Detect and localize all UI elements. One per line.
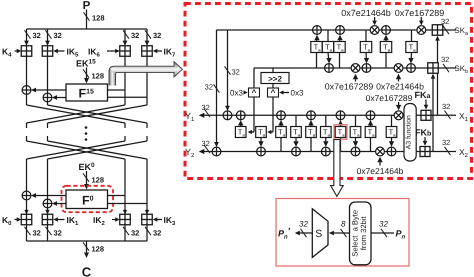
slash 32 on V1 (214, 84, 220, 92)
ellipsis dot 1 for middle rounds (85, 126, 88, 129)
xor row B no1 (325, 64, 334, 73)
svg-text:0x3: 0x3 (230, 89, 243, 98)
0x3 multiplier box 2 with caret (268, 88, 279, 97)
wire bus down to C with slash 128 (86, 241, 88, 256)
wire stub word1 above last swap (47, 136, 49, 141)
red highlight around fault target T box (334, 125, 347, 140)
bottom T box 4 (291, 127, 302, 138)
slash 32 and label SKa (443, 26, 449, 34)
wire Y1 tap down into bottom T box (down-type) no3 (355, 115, 357, 126)
wire word3 down through round 0 (146, 159, 148, 214)
wire T1 up to row A xor (316, 37, 319, 42)
wire F0 output to xor word0 (33, 195, 67, 197)
wire stub word3 above last swap (146, 136, 148, 141)
svg-text:from 32bit: from 32bit (359, 216, 368, 251)
svg-text:32: 32 (205, 83, 213, 92)
bottom T box 6 (321, 127, 332, 138)
pink border of fault injection panel (276, 199, 409, 267)
wire Y2 tap up into bottom T box (up-type) no2 (310, 138, 312, 152)
slash 32 on Y1 (204, 109, 210, 117)
wire word1 down to round xor (47, 56, 49, 93)
multiplier on row A (0x7e21464b) (370, 26, 379, 35)
slash 32 and label X2 (445, 147, 451, 155)
svg-text:Pn′: Pn′ (278, 226, 291, 241)
output xor-box IK3 (142, 214, 153, 225)
down arrow from bottom T box into Y2 xor no3 (325, 138, 327, 146)
xor row B no2 (362, 64, 371, 73)
swap wire word0 to word2 after round 15 (27, 105, 126, 123)
wire word1 to round0 xor (47, 159, 49, 199)
svg-text:32: 32 (54, 31, 62, 40)
wire word3 to bottom bus with slash 32 (146, 225, 148, 241)
wire shift box into 0x3 multiplier box 2 (272, 84, 274, 89)
wire branch word1 (47, 29, 49, 45)
round function box F0 (66, 190, 108, 209)
label IK7 with input arrow (153, 49, 158, 53)
xor on Y2 from V1 (212, 147, 221, 156)
label IK3 with input arrow (153, 217, 158, 221)
wire word2 down through round 15 (124, 56, 126, 105)
left drop V1: row A corner down to Y2 xor (216, 30, 218, 146)
top bus wire (27, 28, 148, 30)
xor round15 word1 (43, 93, 52, 102)
svg-text:32: 32 (33, 229, 41, 238)
Y1 output arrow and label (199, 113, 205, 118)
multiplier on row B (0x7e167289) (351, 64, 360, 73)
wire P down to top bus (86, 10, 88, 30)
A3 function rounded box (404, 104, 416, 162)
table box T1 top row (311, 42, 322, 53)
svg-text:IK3: IK3 (164, 215, 177, 227)
bottom T box 10 (386, 127, 397, 138)
wire word1 into swap (47, 102, 49, 105)
bus width slash 128 on P wire (84, 12, 90, 20)
svg-text:32: 32 (131, 31, 139, 40)
svg-text:IK6: IK6 (88, 47, 101, 59)
svg-text:32: 32 (33, 31, 41, 40)
svg-text:EK15: EK15 (76, 58, 96, 68)
wire T3 up to row A xor (339, 37, 342, 42)
svg-text:32: 32 (299, 220, 308, 229)
wire S-box to Pn-prime with arrow and slash 32 (297, 232, 313, 234)
ellipsis dot 2 for middle rounds (85, 132, 88, 135)
Y1 / X1 horizontal wire (201, 114, 457, 116)
xor row A no2 (336, 26, 345, 35)
wire branch word3 (146, 29, 148, 45)
svg-text:0x7e167289: 0x7e167289 (366, 93, 413, 103)
xor row A no1 (313, 26, 322, 35)
arrowhead into word3 output xor-box (145, 210, 149, 215)
xor on Y2 below bottom T4 (387, 147, 396, 156)
svg-text:32: 32 (379, 220, 388, 229)
svg-text:^: ^ (271, 88, 276, 97)
svg-text:>>2: >>2 (268, 74, 282, 83)
wire F15 output to xor word1 (54, 97, 67, 99)
wire branch word0 (26, 29, 28, 45)
multiplier on row B (0x7e21464b) (394, 64, 403, 73)
wire T6 down to row B xor (410, 53, 413, 62)
xor on Y1 above bottom T0 (236, 111, 245, 120)
bottom T box 2 (256, 127, 267, 138)
slash 32 and label X1 (445, 111, 451, 119)
svg-text:32: 32 (442, 138, 450, 147)
left drop V2: row A tap down to Y1 xor (227, 30, 229, 110)
xor-box FKb on X2 row (420, 147, 430, 157)
up arrow from bottom T box into Y1 xor no4 (340, 121, 342, 126)
wire EK15 into F15 with slash 128 (86, 68, 88, 82)
row A wire (217, 29, 457, 31)
xor on Y2 below bottom T2 (321, 147, 330, 156)
red dashed highlight around F0 (62, 186, 114, 212)
xor row B no3 (407, 64, 416, 73)
up arrow from bottom T box into Y1 xor no2 (280, 121, 282, 126)
slash 32 on Y2 (204, 145, 210, 153)
wire select box to S-box with arrow and slash 8 (331, 232, 350, 234)
shift box >>2 (261, 73, 289, 84)
slash 32 word0 (25, 30, 31, 38)
xor on Y1 above bottom T3 (336, 111, 345, 120)
wire row B tap up into T3 (339, 53, 341, 69)
slash 32 on V2 (225, 66, 231, 74)
bottom T box 5 (306, 127, 317, 138)
xor round0 word0 (22, 191, 31, 200)
svg-text:0x7e21464b: 0x7e21464b (341, 8, 391, 18)
bottom T box 3 (276, 127, 287, 138)
svg-text:Y1: Y1 (185, 111, 195, 123)
wire row B tap up into T5 (385, 53, 387, 69)
wire row B tap up into T1 (316, 53, 318, 69)
table box T4 top row (360, 42, 371, 53)
bottom T box 8 (350, 127, 361, 138)
bottom T box 1 (235, 127, 246, 138)
wire Y2 tap up into bottom T box (up-type) no3 (340, 138, 342, 152)
wire word2 input into F15 (108, 89, 126, 91)
svg-text:32: 32 (232, 68, 240, 77)
table box T3 top row (334, 42, 345, 53)
svg-text:A3 function: A3 function (406, 115, 413, 149)
svg-text:32: 32 (202, 103, 210, 112)
wire branch word2 (124, 29, 126, 45)
wire Y2 tap up into bottom T box (up-type) no4 (370, 138, 372, 152)
slash 32 word3 (145, 30, 151, 38)
wire SKa tap from X1 line (437, 37, 439, 115)
xor round0 word1 (43, 199, 52, 208)
wire Y1 tap down into bottom T box (down-type) no1 (295, 115, 297, 126)
wire F0 output to xor word1 (54, 203, 67, 205)
svg-text:0x7e167289: 0x7e167289 (325, 82, 374, 92)
wire word1 to bottom bus with slash 32 (47, 225, 49, 241)
svg-text:128: 128 (92, 245, 105, 254)
slash 32 word2 (123, 30, 129, 38)
wire 0x3 box2 down and left into bottom T2 (272, 97, 274, 132)
svg-text:SKa: SKa (455, 26, 469, 37)
wire Y2 tap up into bottom T box (up-type) no1 (280, 138, 282, 152)
select a byte rounded box (350, 202, 372, 265)
xor-box SKa on row A (432, 25, 443, 36)
wire row A tap into T4 (365, 30, 367, 42)
wire row B tap into shift box (272, 68, 274, 73)
output xor-box IK1 (42, 214, 53, 225)
up arrow from bottom T box into Y1 xor no1 (240, 121, 242, 126)
whitening xor-box IK7 (142, 46, 153, 57)
wire Pn into select box with slash 32 (371, 232, 394, 234)
label IK5 with input arrow (53, 49, 58, 53)
row B wire (254, 67, 456, 69)
wire word3 input into F0 (108, 203, 148, 205)
svg-text:S: S (315, 228, 322, 240)
wire Y1 tap down into bottom T box (down-type) no2 (325, 115, 327, 126)
wire word0 to bottom bus with slash 32 (26, 225, 28, 241)
wire word0 down to round xor (26, 56, 28, 86)
down arrow from bottom T box into Y2 xor no4 (355, 138, 357, 146)
wire T2 down to row B xor (328, 53, 329, 62)
slash 32 word1 (46, 30, 52, 38)
xor row A no4 (382, 26, 391, 35)
table box T5 top row (380, 42, 391, 53)
wire stub word2 above last swap (124, 136, 126, 141)
wire F15 output to xor word0 (33, 89, 67, 91)
multiplier on row A (0x7e167289) (417, 26, 426, 35)
svg-text:Y2: Y2 (185, 147, 195, 159)
svg-text:128: 128 (92, 72, 105, 81)
wire EK0 into F0 with slash 128 (86, 171, 88, 188)
svg-text:X1: X1 (459, 111, 469, 123)
multiplier on X2 row (0x7e21464b) (376, 147, 385, 156)
down arrow from bottom T box into Y2 xor no2 (295, 138, 297, 146)
up arrow from bottom T box into Y1 xor no5 (370, 121, 372, 126)
label IK1 with input arrow (53, 217, 58, 221)
svg-text:K4: K4 (2, 47, 12, 59)
swap wire word1 to word3 after round 15 (48, 105, 148, 123)
wire word2 to bottom bus with slash 32 (124, 225, 126, 241)
xor on Y1 above bottom T4 (366, 111, 375, 120)
slash 32 and label SKb (443, 64, 449, 72)
wire word3 down through round 15 (146, 56, 148, 105)
svg-text:C: C (82, 265, 92, 277)
swap wire word3 to word1 after round 15 (48, 105, 148, 123)
label 0x3 with arrow into box 2 (287, 92, 289, 94)
xor-box SKb on row B (428, 63, 439, 74)
xor on Y1 above bottom T2 (307, 111, 316, 120)
xor round15 word0 (22, 86, 31, 95)
svg-text:IK2: IK2 (93, 215, 106, 227)
wire word3 input into F15 (108, 96, 148, 98)
wire word0 into output xor-box (26, 200, 28, 214)
svg-text:128: 128 (92, 176, 105, 185)
wire word2 input into F0 (108, 195, 126, 197)
swap wire word2 to word0 after round 15 (27, 105, 126, 123)
wire SKb tap from X2 line (432, 75, 434, 152)
svg-text:EK0: EK0 (79, 162, 96, 172)
xor-box FKa on X1 row (421, 110, 431, 120)
Y2 output arrow and label (199, 149, 205, 154)
wire T4 down to row B xor (365, 53, 368, 62)
svg-text:0x3: 0x3 (291, 89, 304, 98)
whitening xor-box K4 (21, 46, 32, 57)
svg-text:32: 32 (131, 229, 139, 238)
svg-text:IK1: IK1 (67, 215, 80, 227)
xor on Y1 above bottom T1 (277, 111, 286, 120)
wire Y1 tap down into bottom T box (down-type) no4 (391, 115, 393, 126)
svg-text:IK5: IK5 (67, 47, 80, 59)
svg-text:0x7e21464b: 0x7e21464b (357, 166, 404, 176)
svg-text:32: 32 (153, 229, 161, 238)
svg-text:X2: X2 (459, 147, 469, 159)
xor on Y2 below bottom T1 (292, 147, 301, 156)
svg-text:32: 32 (153, 31, 161, 40)
wire stub word2 below swap (124, 123, 126, 128)
swap wire word3 to word1 before round 0 (48, 141, 148, 159)
swap wire word1 to word3 before round 0 (48, 141, 148, 159)
wire stub word0 below swap (26, 123, 28, 128)
bottom bus wire (27, 240, 148, 242)
svg-text:FKa: FKa (415, 90, 431, 100)
wire 0x3 box1 down and left into bottom T1 (253, 97, 255, 132)
ellipsis dot 3 for middle rounds (85, 138, 88, 141)
swap wire word2 to word0 before round 0 (27, 141, 126, 159)
row B left corner down into 0x3 multiplier box (253, 68, 255, 88)
svg-text:FKb: FKb (415, 127, 431, 137)
xor on Y2 below bottom T0 (257, 147, 266, 156)
svg-text:^: ^ (252, 88, 257, 97)
wire stub word1 below swap (47, 123, 49, 128)
0x3 multiplier box 1 with caret (249, 88, 260, 97)
wire word1 into output xor-box (47, 208, 49, 214)
bottom T box 7 (fault target) (335, 127, 346, 138)
down arrow from bottom T box into Y2 xor no1 (260, 138, 262, 146)
table box T6 top row (406, 42, 417, 53)
red dashed border of F function panel (185, 4, 472, 179)
xor on Y2 below bottom T3 (351, 147, 360, 156)
hollow fault arrow from T box down to select panel (331, 140, 344, 197)
multiplier on X1 row (0x7e167289) (394, 111, 403, 120)
arrowhead into word2 output xor-box (123, 210, 127, 215)
whitening xor-box IK5 (42, 46, 53, 57)
svg-text:Pn: Pn (396, 229, 406, 241)
swap wire word0 to word2 before round 0 (27, 141, 126, 159)
wire row A tap into T2 (327, 30, 329, 42)
svg-text:32: 32 (441, 55, 449, 64)
svg-text:IK7: IK7 (164, 47, 177, 59)
output xor-box K0 (21, 214, 32, 225)
svg-text:SKb: SKb (455, 64, 468, 75)
Y2 / X2 horizontal wire (201, 151, 457, 153)
round function box F15 (66, 84, 108, 101)
svg-text:32: 32 (442, 102, 450, 111)
wire row A tap into T6 (411, 30, 413, 42)
svg-text:32: 32 (54, 229, 62, 238)
bottom T box 9 (365, 127, 376, 138)
svg-text:K0: K0 (2, 215, 12, 227)
wire word0 into swap (26, 94, 28, 105)
wire stub word0 above last swap (26, 136, 28, 141)
wire word2 down through round 0 (124, 159, 126, 214)
wire word0 to round0 xor (26, 159, 28, 191)
svg-text:8: 8 (341, 220, 346, 229)
svg-text:32: 32 (202, 139, 210, 148)
xor on Y1 from V2 (223, 111, 232, 120)
up arrow from bottom T box into Y1 xor no3 (310, 121, 312, 126)
output xor-box IK2 (120, 214, 131, 225)
svg-text:0x7e167289: 0x7e167289 (395, 8, 445, 18)
wire T5 up to row A xor (385, 37, 387, 42)
whitening xor-box IK6 (120, 46, 131, 57)
down arrow from bottom T box into Y2 xor no5 (391, 138, 393, 146)
wire stub word3 below swap (146, 123, 148, 128)
S-box trapezoid (312, 209, 328, 258)
table box T2 top row (322, 42, 333, 53)
svg-text:128: 128 (92, 14, 105, 23)
